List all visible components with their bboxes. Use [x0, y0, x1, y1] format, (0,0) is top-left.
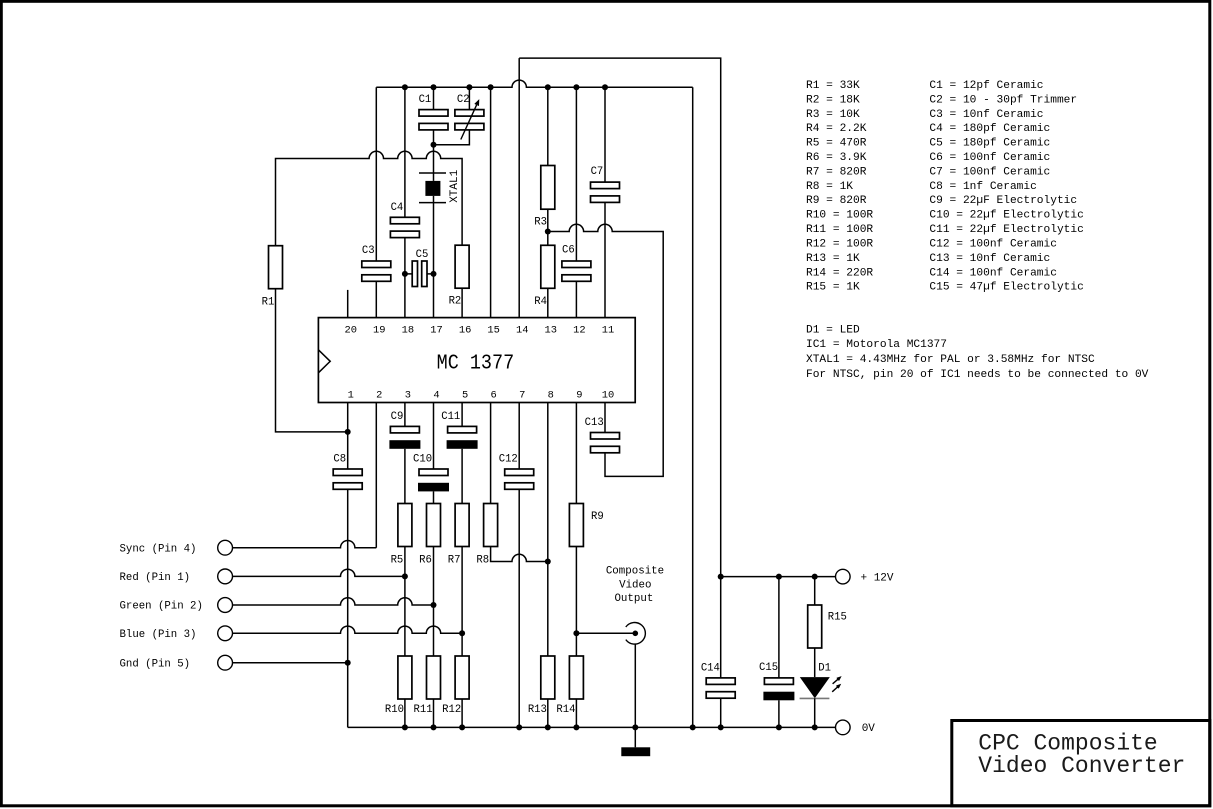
- svg-text:C8: C8: [333, 453, 346, 465]
- resistor R9: [569, 504, 583, 547]
- svg-text:C10: C10: [413, 453, 432, 465]
- svg-text:C15 = 47µf Electrolytic: C15 = 47µf Electrolytic: [929, 282, 1083, 294]
- node +12V/C14 junction: [718, 574, 724, 580]
- capacitor C13: [591, 433, 620, 440]
- svg-text:IC1 = Motorola MC1377: IC1 = Motorola MC1377: [806, 339, 947, 351]
- svg-text:C12: C12: [499, 453, 518, 465]
- wire pin 4 to C10: [433, 403, 435, 470]
- wire R12 to rail: [461, 699, 463, 727]
- node C5 left junction: [402, 271, 408, 277]
- terminal Blue input: [218, 626, 233, 641]
- wire +12V top loop: [519, 58, 721, 577]
- wire bottom ground rail: [348, 726, 836, 728]
- wire +12V to C15: [778, 577, 780, 678]
- svg-text:R12: R12: [442, 704, 461, 716]
- svg-text:C1 = 12pf Ceramic: C1 = 12pf Ceramic: [929, 80, 1043, 92]
- svg-text:C14 = 100nf Ceramic: C14 = 100nf Ceramic: [929, 267, 1057, 279]
- svg-text:R1: R1: [262, 297, 275, 309]
- capacitor C3: [362, 261, 391, 268]
- capacitor C2 trimmer: [455, 110, 484, 117]
- capacitor C9: [390, 426, 419, 433]
- svg-text:R7: R7: [448, 555, 461, 567]
- svg-text:C4 = 180pf Ceramic: C4 = 180pf Ceramic: [929, 123, 1050, 135]
- svg-text:3: 3: [405, 389, 411, 401]
- capacitor C12: [505, 469, 534, 476]
- svg-text:C10 = 22µf Electrolytic: C10 = 22µf Electrolytic: [929, 210, 1083, 222]
- wire R11 to rail: [433, 699, 435, 727]
- svg-text:R3 = 10K: R3 = 10K: [806, 109, 860, 121]
- wire R5 to R10: [404, 547, 406, 657]
- svg-text:12: 12: [573, 325, 585, 337]
- wire C9 to R5: [404, 449, 406, 504]
- node R8/pin8 junction: [545, 559, 551, 565]
- wire C14 to rail: [720, 698, 722, 727]
- svg-text:C8 = 1nf Ceramic: C8 = 1nf Ceramic: [929, 181, 1036, 193]
- capacitor C10: [419, 469, 448, 476]
- node R1/pin1 junction: [345, 429, 351, 435]
- title box: [952, 721, 1210, 806]
- capacitor C14: [706, 678, 735, 685]
- svg-text:C3 = 10nf Ceramic: C3 = 10nf Ceramic: [929, 109, 1043, 121]
- wire C3 to pin 19: [375, 281, 377, 317]
- bottom rail junction dots: [402, 724, 408, 730]
- capacitor C6: [562, 261, 591, 268]
- svg-text:Gnd (Pin 5): Gnd (Pin 5): [120, 658, 191, 670]
- wire rail to C6: [575, 87, 577, 261]
- wire C15 to rail: [778, 700, 780, 727]
- LED D1: [800, 677, 830, 698]
- svg-text:R4 = 2.2K: R4 = 2.2K: [806, 123, 867, 135]
- resistor R14: [569, 656, 583, 699]
- svg-text:R5 = 470R: R5 = 470R: [806, 138, 867, 150]
- op-amp U1 MC1377 body: [318, 318, 635, 403]
- wire rail to pin 15: [490, 87, 492, 317]
- wire pin 1 down: [347, 403, 349, 470]
- wire pin 20 stub: [347, 290, 349, 318]
- wire output to ground: [634, 644, 636, 727]
- svg-text:R2 = 18K: R2 = 18K: [806, 95, 860, 107]
- wire pin 2 to sync line: [375, 403, 377, 548]
- resistor R8: [484, 504, 498, 547]
- svg-text:C13 = 10nf Ceramic: C13 = 10nf Ceramic: [929, 253, 1050, 265]
- node R3/R4 junction: [545, 229, 551, 235]
- capacitor C8: [333, 469, 362, 476]
- terminal Green input: [218, 598, 233, 613]
- svg-text:R1 = 33K: R1 = 33K: [806, 80, 860, 92]
- wire pin 10 to C13: [604, 403, 606, 433]
- svg-text:17: 17: [430, 325, 442, 337]
- wire C12 to rail: [518, 489, 520, 727]
- svg-text:C7: C7: [591, 166, 604, 178]
- resistor R7: [455, 504, 469, 547]
- wire Blue input line: [233, 626, 463, 633]
- svg-text:R10 = 100R: R10 = 100R: [806, 210, 873, 222]
- wire R1 to pin1 node: [276, 289, 348, 432]
- wire R7 to R12: [461, 547, 463, 657]
- wire R8 to pin 8 wire: [491, 547, 548, 562]
- resistor R3: [541, 166, 555, 210]
- resistor R1: [269, 246, 283, 289]
- node C15 junction: [776, 574, 782, 580]
- svg-text:R14: R14: [556, 704, 575, 716]
- wire C11 to R7: [461, 449, 463, 504]
- terminal Red input: [218, 569, 233, 584]
- svg-text:1: 1: [348, 389, 354, 401]
- wire pin 9 to R9: [575, 403, 577, 504]
- wire C8 to bottom rail: [347, 489, 349, 727]
- wire D1 to rail: [814, 698, 816, 727]
- svg-text:C12 = 100nf Ceramic: C12 = 100nf Ceramic: [929, 239, 1057, 251]
- svg-text:D1 = LED: D1 = LED: [806, 324, 860, 336]
- svg-text:Output: Output: [614, 593, 653, 605]
- svg-text:R11 = 100R: R11 = 100R: [806, 224, 873, 236]
- wire pin 8 down: [547, 403, 549, 657]
- svg-text:C5 = 180pf Ceramic: C5 = 180pf Ceramic: [929, 138, 1050, 150]
- svg-text:C11 = 22µf Electrolytic: C11 = 22µf Electrolytic: [929, 224, 1083, 236]
- wire C2 to node A: [434, 130, 470, 145]
- capacitor C5: [405, 273, 434, 275]
- svg-text:C7 = 100nf Ceramic: C7 = 100nf Ceramic: [929, 167, 1050, 179]
- svg-text:Video: Video: [619, 579, 651, 591]
- connector composite output: [626, 623, 646, 645]
- node Red junction: [402, 573, 408, 579]
- wire Green input line: [233, 598, 434, 605]
- svg-text:R9: R9: [591, 511, 604, 523]
- wire rail corner to C3: [375, 87, 377, 261]
- svg-text:R5: R5: [391, 555, 404, 567]
- wire pin 5 to C11: [461, 403, 463, 427]
- svg-text:8: 8: [548, 389, 554, 401]
- svg-text:2: 2: [376, 389, 382, 401]
- wire R9 to R14: [575, 547, 577, 657]
- wire C7 to pin 11: [604, 202, 606, 317]
- wire ground rail right drop: [692, 87, 694, 727]
- IC notch: [318, 350, 330, 373]
- svg-text:D1: D1: [818, 662, 831, 674]
- svg-text:For NTSC, pin 20 of IC1 needs: For NTSC, pin 20 of IC1 needs to be conn…: [806, 369, 1149, 381]
- wire top ground rail: [376, 80, 692, 87]
- svg-text:18: 18: [402, 325, 414, 337]
- wire C10 to R6: [433, 491, 435, 503]
- wire R3 to R4: [547, 209, 549, 245]
- resistor R4: [541, 245, 555, 288]
- svg-text:R13: R13: [528, 704, 547, 716]
- svg-text:6: 6: [490, 389, 496, 401]
- wire R13 to rail: [547, 699, 549, 727]
- wire R15 to D1: [814, 648, 816, 677]
- svg-text:XTAL1 = 4.43MHz for PAL or 3.5: XTAL1 = 4.43MHz for PAL or 3.58MHz for N…: [806, 354, 1095, 366]
- terminal Gnd input: [218, 655, 233, 670]
- svg-text:R3: R3: [534, 216, 547, 228]
- wire rail to ground bar: [634, 727, 636, 747]
- svg-text:R6: R6: [419, 555, 432, 567]
- svg-text:9: 9: [576, 389, 582, 401]
- svg-text:+ 12V: + 12V: [861, 572, 894, 584]
- capacitor C7: [591, 182, 620, 189]
- resistor R6: [427, 504, 441, 547]
- svg-text:C14: C14: [701, 662, 720, 674]
- wire C4 to C5 node: [404, 238, 406, 274]
- svg-text:Sync (Pin 4): Sync (Pin 4): [120, 543, 197, 555]
- wire R2 to pin 16: [461, 288, 463, 317]
- node Blue junction: [459, 630, 465, 636]
- svg-text:C13: C13: [585, 417, 604, 429]
- wire sync input line: [233, 541, 377, 548]
- wire R1 to R2 top line: [276, 151, 463, 245]
- wire XTAL1 to C5 node: [433, 203, 435, 274]
- svg-text:R12 = 100R: R12 = 100R: [806, 239, 873, 251]
- svg-text:Green (Pin 2): Green (Pin 2): [120, 601, 203, 613]
- crystal XTAL1: [419, 173, 446, 203]
- trimmer arrow C2: [461, 101, 479, 140]
- svg-text:MC 1377: MC 1377: [437, 353, 515, 376]
- resistor R5: [398, 504, 412, 547]
- svg-text:14: 14: [516, 325, 528, 337]
- svg-text:19: 19: [373, 325, 385, 337]
- svg-text:C9: C9: [391, 411, 404, 423]
- svg-text:C2: C2: [457, 94, 470, 106]
- wire output line: [576, 632, 633, 634]
- capacitor C4: [390, 217, 419, 224]
- wire R3 junction to C13 loop: [548, 224, 663, 476]
- wire R14 to rail: [575, 699, 577, 727]
- wire C5 node to pin 18: [404, 274, 406, 318]
- svg-text:R8: R8: [476, 555, 489, 567]
- wire C1 to node A: [433, 130, 435, 145]
- svg-text:C2 = 10 - 30pf Trimmer: C2 = 10 - 30pf Trimmer: [929, 95, 1077, 107]
- wire R4 to pin 13: [547, 288, 549, 317]
- capacitor C15: [764, 678, 793, 685]
- resistor R10: [398, 656, 412, 699]
- top rail junction dots: [402, 84, 408, 90]
- svg-text:R15: R15: [828, 611, 847, 623]
- svg-text:C4: C4: [391, 202, 404, 214]
- svg-text:R6 = 3.9K: R6 = 3.9K: [806, 152, 867, 164]
- resistor R12: [455, 656, 469, 699]
- svg-text:XTAL1: XTAL1: [449, 169, 461, 202]
- capacitor C11: [448, 426, 477, 433]
- svg-text:16: 16: [459, 325, 471, 337]
- terminal Sync input: [218, 540, 233, 555]
- svg-text:R11: R11: [414, 704, 433, 716]
- node A junction C1/C2: [431, 142, 437, 148]
- wire rail to R3: [547, 87, 549, 165]
- svg-text:11: 11: [602, 325, 614, 337]
- svg-text:R13 = 1K: R13 = 1K: [806, 253, 860, 265]
- resistor R15: [808, 605, 822, 648]
- svg-text:R15 = 1K: R15 = 1K: [806, 282, 860, 294]
- resistor R13: [541, 656, 555, 699]
- svg-text:4: 4: [433, 389, 439, 401]
- node C5 right junction: [431, 271, 437, 277]
- svg-text:R14 = 220R: R14 = 220R: [806, 267, 873, 279]
- wire pin 14 from +12V loop: [518, 58, 520, 318]
- wire rail to C4: [404, 87, 406, 217]
- svg-text:13: 13: [545, 325, 557, 337]
- svg-text:0V: 0V: [862, 723, 876, 735]
- svg-text:R9 = 820R: R9 = 820R: [806, 195, 867, 207]
- wire +12V line: [721, 576, 836, 578]
- svg-text:R2: R2: [449, 296, 462, 308]
- svg-text:C5: C5: [416, 249, 429, 261]
- terminal +12V: [836, 569, 851, 584]
- svg-text:15: 15: [487, 325, 499, 337]
- wire rail to C7: [604, 87, 606, 182]
- wire pin 3 to C9: [404, 403, 406, 427]
- svg-text:10: 10: [602, 389, 614, 401]
- svg-text:Red (Pin 1): Red (Pin 1): [120, 572, 191, 584]
- svg-text:7: 7: [519, 389, 525, 401]
- svg-text:R4: R4: [534, 296, 547, 308]
- wire +12V loop to C14: [720, 577, 722, 678]
- wire node A to XTAL1: [433, 145, 435, 173]
- wire R6 to R11: [433, 547, 435, 657]
- svg-text:20: 20: [344, 325, 356, 337]
- wire pin 7 to C12: [518, 403, 520, 470]
- svg-text:C11: C11: [441, 411, 460, 423]
- wire pin 6 to R8: [490, 403, 492, 504]
- node output junction: [573, 630, 579, 636]
- svg-text:R7 = 820R: R7 = 820R: [806, 167, 867, 179]
- terminal 0V: [836, 720, 851, 735]
- resistor R11: [427, 656, 441, 699]
- LED arrows D1: [833, 677, 841, 684]
- ground: [621, 747, 650, 756]
- svg-text:R8 = 1K: R8 = 1K: [806, 181, 853, 193]
- wire C5 node to pin 17: [433, 274, 435, 318]
- wire R10 to rail: [404, 699, 406, 727]
- svg-text:C3: C3: [362, 245, 375, 257]
- wire C6 to pin 12: [575, 281, 577, 317]
- node Green junction: [431, 602, 437, 608]
- svg-text:C9 = 22µF Electrolytic: C9 = 22µF Electrolytic: [929, 195, 1077, 207]
- capacitor C1: [419, 110, 448, 117]
- svg-text:R10: R10: [385, 704, 404, 716]
- svg-text:C15: C15: [759, 662, 778, 674]
- svg-text:C6: C6: [562, 245, 575, 257]
- svg-text:C6 = 100nf Ceramic: C6 = 100nf Ceramic: [929, 152, 1050, 164]
- node R15 junction: [812, 574, 818, 580]
- wire rail to C2: [468, 87, 470, 109]
- svg-text:Video Converter: Video Converter: [978, 753, 1185, 779]
- wire Red input line: [233, 569, 405, 576]
- wire rail to C1: [433, 87, 435, 109]
- svg-text:5: 5: [462, 389, 468, 401]
- wire +12V to R15: [814, 577, 816, 605]
- svg-text:Composite: Composite: [606, 566, 664, 578]
- wire Gnd input line: [233, 662, 348, 664]
- svg-text:C1: C1: [419, 94, 432, 106]
- node Gnd input junction: [345, 660, 351, 666]
- resistor R2: [455, 245, 469, 288]
- svg-text:Blue (Pin 3): Blue (Pin 3): [120, 629, 197, 641]
